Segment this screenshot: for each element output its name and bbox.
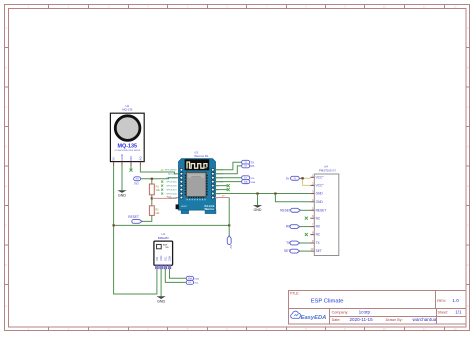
svg-text:VCC*: VCC* bbox=[316, 175, 325, 179]
no-connect X U4 pin8 bbox=[305, 233, 308, 236]
svg-text:GPIO14/D5: GPIO14/D5 bbox=[166, 182, 177, 184]
svg-text:VIN: VIN bbox=[156, 257, 159, 261]
svg-text:GPIO12/D6: GPIO12/D6 bbox=[166, 186, 177, 188]
wire VCC jumper pin1-pin2 (yellow) bbox=[303, 178, 311, 185]
svg-text:MQ-135: MQ-135 bbox=[122, 108, 133, 112]
svg-text:1corp: 1corp bbox=[359, 309, 371, 314]
svg-text:C: C bbox=[467, 105, 469, 109]
svg-text:BME280: BME280 bbox=[158, 236, 169, 240]
node junction 3V3/R1 bbox=[151, 178, 153, 180]
svg-text:3V3: 3V3 bbox=[136, 179, 139, 181]
svg-text:SCL: SCL bbox=[164, 256, 167, 261]
svg-text:5V: 5V bbox=[286, 177, 290, 181]
net flag SCL (BME) bbox=[186, 280, 199, 284]
ground under BME280 bbox=[157, 269, 166, 304]
svg-text:Wemos: Wemos bbox=[205, 207, 215, 211]
node junction rail right bbox=[228, 224, 230, 226]
svg-text:GND: GND bbox=[316, 192, 324, 196]
no-connect X on Wemos D4 bbox=[215, 188, 230, 191]
wire 5V down to rail bbox=[228, 198, 230, 236]
svg-text:ESP8266: ESP8266 bbox=[192, 176, 202, 178]
wire GND net Wemos to U4 bbox=[215, 193, 311, 195]
wire MQ135 5V down to 5V rail bbox=[113, 166, 115, 226]
EasyEDA logo bbox=[291, 311, 327, 321]
svg-text:Sheet:: Sheet: bbox=[438, 310, 449, 314]
svg-text:SET: SET bbox=[284, 249, 290, 253]
svg-text:NC: NC bbox=[316, 233, 321, 237]
svg-text:Wemos D1: Wemos D1 bbox=[194, 154, 209, 158]
svg-text:EasyEDA: EasyEDA bbox=[301, 315, 327, 321]
wire RST net (pink) to Wemos RST pin bbox=[152, 196, 180, 198]
net flag SET (U4) bbox=[284, 249, 310, 253]
resistor R1 10k bbox=[149, 179, 160, 199]
node junction GND branch to pin4 bbox=[274, 192, 276, 194]
svg-text:5V: 5V bbox=[229, 245, 233, 248]
svg-text:H: H bbox=[5, 304, 7, 308]
ground under MQ135 GND pin bbox=[117, 166, 126, 198]
net flag TX (U4) bbox=[286, 241, 310, 245]
svg-text:RESET: RESET bbox=[128, 215, 139, 219]
node junction GND symbol tap bbox=[256, 192, 258, 194]
wire Wemos 5V pin (pink stub) bbox=[215, 196, 229, 198]
resistor R2 10k bbox=[149, 198, 160, 215]
wire MQ135 AO to Wemos A0 pin bbox=[140, 166, 179, 174]
wire 5V rail down to BME280 VIN bbox=[114, 225, 157, 294]
wire 5V horizontal rail bbox=[114, 224, 230, 226]
svg-text:RESET: RESET bbox=[280, 208, 291, 212]
svg-text:GND: GND bbox=[157, 299, 165, 303]
wire Wemos TX to flag bbox=[215, 162, 242, 170]
svg-text:B: B bbox=[5, 66, 7, 70]
net flag RX bbox=[242, 164, 255, 168]
svg-text:R2: R2 bbox=[155, 208, 159, 212]
svg-text:GPIO13/D7: GPIO13/D7 bbox=[166, 190, 177, 192]
svg-text:RESET: RESET bbox=[316, 208, 327, 212]
svg-text:H: H bbox=[467, 304, 469, 308]
node junction R1/R2/RST bbox=[151, 197, 153, 199]
net flag 5V (U4) bbox=[286, 176, 299, 180]
net flag RESET (left) bbox=[128, 215, 142, 223]
wire GND branch to U4 pin 4 bbox=[275, 194, 310, 202]
svg-text:10k: 10k bbox=[156, 188, 161, 192]
svg-text:Date:: Date: bbox=[332, 318, 341, 322]
svg-text:ADC0/A0: ADC0/A0 bbox=[168, 173, 177, 176]
wire 3V3 flag to Wemos 3V3 pin bbox=[141, 178, 180, 179]
wire Wemos RX to flag bbox=[215, 166, 242, 174]
net flag RX (U4) bbox=[286, 225, 311, 229]
svg-text:ESP Climate: ESP Climate bbox=[311, 299, 344, 305]
svg-text:GND: GND bbox=[316, 200, 324, 204]
wire Wemos D2 to SDA flag bbox=[215, 181, 242, 183]
svg-text:10: 10 bbox=[383, 4, 387, 8]
no-connect X on Wemos D3 bbox=[215, 184, 230, 187]
svg-text:GND: GND bbox=[118, 193, 126, 197]
wire Wemos D1 to SCL flag bbox=[215, 177, 242, 179]
svg-text:Drawn By:: Drawn By: bbox=[386, 318, 403, 322]
no-connect X U4 pin6 bbox=[305, 217, 308, 220]
svg-text:2020-11-15: 2020-11-15 bbox=[350, 317, 374, 322]
svg-text:F: F bbox=[5, 223, 7, 227]
svg-text:11: 11 bbox=[423, 4, 426, 8]
svg-text:10k: 10k bbox=[155, 211, 160, 215]
svg-text:GND: GND bbox=[120, 154, 124, 160]
node junction rail left bbox=[113, 224, 115, 226]
net flag RESET (U4) bbox=[280, 208, 310, 212]
node junction VCC bbox=[302, 177, 304, 179]
svg-text:GPIO15/D8: GPIO15/D8 bbox=[166, 193, 177, 195]
svg-text:SDA: SDA bbox=[251, 181, 256, 184]
svg-text:REV:: REV: bbox=[437, 298, 446, 303]
net flag 5V (vertical) bbox=[227, 236, 233, 249]
sensor module U1 BME280 bbox=[154, 232, 173, 268]
svg-text:warchantua: warchantua bbox=[413, 317, 437, 322]
svg-text:GND: GND bbox=[254, 208, 262, 212]
svg-text:SDA: SDA bbox=[169, 256, 172, 261]
sensor module U2 MQ-135 bbox=[110, 104, 144, 165]
net flag SCL bbox=[242, 176, 256, 180]
svg-text:GPIO16/D0: GPIO16/D0 bbox=[166, 178, 177, 180]
wire R2 bottom to RESET flag bbox=[142, 215, 152, 221]
dev board U3 Wemos D1 mini bbox=[161, 151, 224, 214]
svg-text:A: A bbox=[467, 26, 469, 30]
svg-text:12: 12 bbox=[453, 327, 457, 331]
ground right of Wemos bbox=[253, 194, 262, 213]
svg-text:1.0: 1.0 bbox=[452, 298, 459, 304]
svg-text:GND: GND bbox=[160, 255, 163, 261]
no-connect X on MQ135 DO pin bbox=[130, 166, 133, 172]
svg-text:11: 11 bbox=[423, 327, 426, 331]
svg-text:PMS7003-G7: PMS7003-G7 bbox=[319, 168, 336, 172]
svg-text:12: 12 bbox=[453, 4, 457, 8]
svg-text:A: A bbox=[5, 26, 7, 30]
svg-text:RESET: RESET bbox=[181, 206, 188, 208]
svg-text:SCL: SCL bbox=[244, 177, 248, 179]
svg-text:Company:: Company: bbox=[332, 310, 349, 314]
svg-text:NC: NC bbox=[316, 216, 321, 220]
svg-text:RST/3V3: RST/3V3 bbox=[168, 197, 177, 199]
svg-text:D: D bbox=[5, 144, 7, 148]
svg-text:3V3: 3V3 bbox=[134, 182, 139, 186]
svg-text:1/1: 1/1 bbox=[455, 309, 462, 314]
net flag 3V3 bbox=[134, 177, 141, 186]
svg-text:F: F bbox=[467, 223, 469, 227]
svg-text:C: C bbox=[5, 105, 7, 109]
svg-text:TITLE:: TITLE: bbox=[290, 291, 300, 295]
svg-text:SET: SET bbox=[316, 249, 322, 253]
svg-text:RX: RX bbox=[251, 164, 255, 168]
net flag TX bbox=[242, 160, 255, 164]
svg-text:SDA: SDA bbox=[194, 277, 199, 280]
svg-text:E: E bbox=[5, 184, 7, 188]
wire BME280 SDA to flag bbox=[170, 269, 187, 279]
net flag SDA bbox=[242, 180, 256, 184]
svg-text:CO NH3 NOX ALCOHOL SMOKE: CO NH3 NOX ALCOHOL SMOKE bbox=[115, 149, 141, 152]
title block bbox=[289, 291, 467, 325]
svg-text:B: B bbox=[467, 66, 469, 70]
svg-text:VCC*: VCC* bbox=[316, 184, 325, 188]
svg-text:SCL: SCL bbox=[188, 282, 192, 284]
net flag SDA (BME) bbox=[186, 276, 199, 280]
svg-text:D: D bbox=[467, 144, 469, 148]
connector U4 PMS7003-G7 bbox=[310, 165, 338, 256]
svg-text:DO: DO bbox=[129, 156, 133, 161]
svg-text:10: 10 bbox=[383, 327, 387, 331]
svg-text:5V: 5V bbox=[112, 157, 116, 161]
svg-text:R1: R1 bbox=[156, 185, 160, 189]
svg-text:GPIO16/RST: GPIO16/RST bbox=[165, 170, 178, 172]
svg-text:MQ-135: MQ-135 bbox=[118, 143, 137, 149]
wire BME280 SCL to flag bbox=[165, 269, 186, 283]
svg-text:E: E bbox=[467, 184, 469, 188]
wire 5V flag to U4 pin1 bbox=[299, 177, 302, 179]
